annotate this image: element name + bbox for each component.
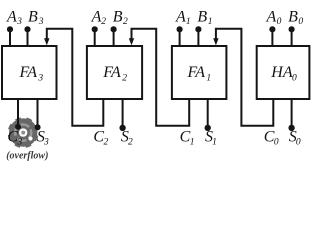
svg-text:3: 3	[38, 17, 44, 27]
svg-text:3: 3	[17, 138, 23, 148]
svg-text:FA: FA	[19, 64, 38, 81]
node B0 terminal	[289, 26, 295, 32]
wire S1 output	[207, 99, 209, 128]
svg-text:FA: FA	[102, 64, 121, 81]
node S3 terminal	[35, 124, 41, 130]
wire A1 input	[179, 29, 181, 46]
svg-text:3: 3	[16, 17, 22, 27]
wire B3 input	[27, 29, 29, 46]
svg-text:0: 0	[277, 17, 282, 27]
svg-text:0: 0	[298, 17, 303, 27]
arrowhead into FA1	[213, 38, 218, 45]
node B3 terminal	[24, 26, 30, 32]
svg-text:1: 1	[186, 17, 191, 27]
wire B2 input	[113, 29, 115, 46]
node S0 terminal	[288, 125, 294, 131]
wire S0 output	[291, 99, 293, 128]
gear icon (grey watermark)	[6, 115, 41, 150]
svg-text:B: B	[113, 8, 123, 25]
svg-text:0: 0	[292, 73, 297, 83]
node A1 terminal	[177, 26, 183, 32]
wire A0 input	[271, 29, 273, 46]
svg-text:2: 2	[101, 17, 106, 27]
svg-text:B: B	[28, 8, 38, 25]
svg-text:2: 2	[128, 138, 133, 148]
svg-text:A: A	[175, 8, 186, 25]
svg-text:HA: HA	[270, 64, 293, 81]
node C3 terminal	[15, 124, 21, 130]
svg-text:2: 2	[104, 138, 109, 148]
node A0 terminal	[269, 26, 275, 32]
svg-text:1: 1	[212, 138, 217, 148]
svg-text:FA: FA	[187, 64, 206, 81]
wire C1 carry from FA1 to FA2	[132, 29, 190, 126]
box FA2	[87, 46, 142, 99]
wire A3 input	[9, 29, 11, 46]
svg-text:2: 2	[123, 17, 128, 27]
svg-text:3: 3	[37, 73, 43, 83]
node A3 terminal	[7, 26, 13, 32]
svg-text:A: A	[6, 8, 17, 25]
box HA0	[257, 46, 310, 99]
box FA1	[172, 46, 227, 99]
arrowhead into FA2	[129, 38, 134, 45]
wire S3 output	[37, 99, 39, 127]
svg-text:0: 0	[274, 138, 279, 148]
wire C3 output	[17, 99, 19, 127]
svg-text:A: A	[266, 8, 277, 25]
node B2 terminal	[111, 26, 117, 32]
svg-text:1: 1	[190, 138, 195, 148]
svg-text:2: 2	[122, 73, 127, 83]
wire B0 input	[291, 29, 293, 46]
node S2 terminal	[119, 125, 125, 131]
node A2 terminal	[92, 26, 98, 32]
svg-text:0: 0	[296, 138, 301, 148]
wire C2 carry from FA2 to FA3	[47, 29, 104, 126]
svg-text:3: 3	[43, 138, 49, 148]
wire B1 input	[197, 29, 199, 46]
node B1 terminal	[195, 26, 201, 32]
svg-text:1: 1	[208, 17, 213, 27]
node S1 terminal	[205, 125, 211, 131]
svg-text:1: 1	[206, 73, 211, 83]
arrowhead into FA3	[44, 38, 49, 45]
box FA3	[2, 46, 57, 99]
wire C0 carry from HA0 to FA1	[216, 29, 273, 126]
wire A2 input	[94, 29, 96, 46]
svg-text:B: B	[197, 8, 207, 25]
svg-text:(overflow): (overflow)	[6, 150, 48, 161]
svg-text:A: A	[91, 8, 102, 25]
wire S2 output	[122, 99, 124, 128]
svg-text:B: B	[288, 8, 298, 25]
